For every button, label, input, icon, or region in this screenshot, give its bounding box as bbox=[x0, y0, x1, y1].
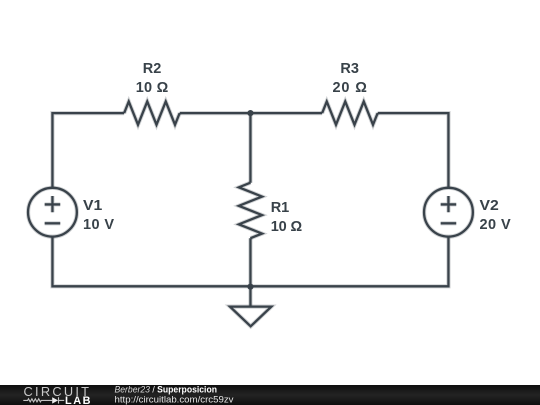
V2 plus sign bbox=[441, 196, 457, 212]
svg-text:V1: V1 bbox=[83, 198, 102, 214]
wire V2 bottom to node B bbox=[250, 237, 448, 286]
resistor R3 bbox=[322, 102, 378, 125]
svg-text:20 Ω: 20 Ω bbox=[333, 80, 368, 96]
wire R1 bottom to node B bbox=[248, 238, 252, 286]
wire R3 right to V2 top bbox=[378, 113, 449, 188]
wire R2 right to node A bbox=[180, 111, 251, 115]
svg-text:10 Ω: 10 Ω bbox=[271, 219, 303, 235]
CircuitLab logo resistor zigzag and diode bbox=[23, 397, 64, 403]
V1 minus sign bbox=[45, 221, 61, 225]
svg-text:V2: V2 bbox=[480, 198, 499, 214]
svg-text:http://circuitlab.com/crc59zv: http://circuitlab.com/crc59zv bbox=[115, 395, 234, 405]
V2 minus sign bbox=[441, 221, 457, 225]
svg-text:Berber23 / Superposicion: Berber23 / Superposicion bbox=[115, 384, 218, 394]
svg-text:20 V: 20 V bbox=[480, 217, 512, 233]
node B junction dot bbox=[247, 284, 253, 290]
voltage source V2 bbox=[424, 188, 473, 237]
svg-text:R3: R3 bbox=[340, 61, 359, 77]
svg-text:LAB: LAB bbox=[65, 395, 91, 405]
node A junction dot bbox=[247, 110, 253, 116]
voltage source V1 bbox=[28, 188, 77, 237]
wire node B to V1 bottom bbox=[52, 237, 250, 286]
resistor R2 bbox=[124, 102, 180, 125]
wire V1 top to R2 left bbox=[52, 113, 124, 188]
wire node A to R3 left bbox=[250, 111, 322, 115]
V1 plus sign bbox=[45, 196, 61, 212]
svg-text:10 V: 10 V bbox=[83, 217, 114, 233]
svg-text:R2: R2 bbox=[143, 61, 162, 77]
ground bbox=[248, 286, 252, 306]
resistor R1 bbox=[239, 183, 262, 239]
wire node A to R1 top bbox=[248, 113, 252, 183]
svg-text:10 Ω: 10 Ω bbox=[136, 80, 169, 96]
svg-text:R1: R1 bbox=[271, 200, 290, 216]
